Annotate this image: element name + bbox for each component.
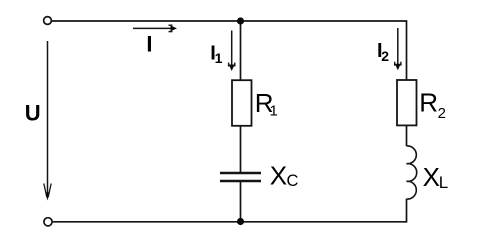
svg-text:R: R	[419, 88, 438, 118]
arrow I (total current, top wire)	[133, 25, 177, 31]
wire: right branch inductor to bottom wire	[406, 199, 408, 223]
wire: right branch vertical down to R2	[406, 20, 408, 80]
arrow I1 (branch current, middle)	[229, 31, 235, 72]
terminal: lower input (open circle)	[44, 218, 52, 226]
inductor XL (three arcs)	[407, 146, 417, 199]
arrow U (source voltage, left side, pointing down)	[44, 41, 51, 201]
svg-text:X: X	[270, 160, 287, 190]
svg-text:U: U	[25, 100, 41, 125]
capacitor XC (plates)	[220, 173, 261, 181]
wire: bottom horizontal from lower terminal to node B	[53, 221, 241, 223]
wire: bottom horizontal from node B to right branch	[241, 221, 407, 223]
resistor R1 (box)	[232, 80, 252, 126]
svg-text:X: X	[423, 162, 440, 192]
svg-text:1: 1	[215, 50, 223, 66]
wire: right branch R2 to inductor XL	[406, 126, 408, 147]
svg-text:2: 2	[438, 105, 446, 122]
wire: middle branch from node A down to R1	[240, 21, 242, 81]
svg-text:1: 1	[270, 102, 278, 119]
svg-text:C: C	[287, 172, 299, 190]
resistor R2 (box)	[397, 80, 417, 125]
wire: middle branch capacitor to bottom node B	[240, 182, 242, 222]
wire: top horizontal from node A to right branch corner	[241, 20, 407, 22]
wire: middle branch R1 to capacitor XC	[240, 126, 242, 173]
node A junction dot (top)	[237, 17, 244, 24]
terminal: upper input (open circle)	[44, 17, 52, 25]
svg-text:I: I	[146, 31, 152, 56]
node B junction dot (bottom)	[237, 218, 244, 225]
svg-text:2: 2	[381, 48, 389, 64]
svg-text:L: L	[439, 173, 448, 192]
arrow I2 (branch current, right)	[395, 28, 401, 70]
wire: top horizontal from input terminal to node A	[52, 20, 241, 22]
